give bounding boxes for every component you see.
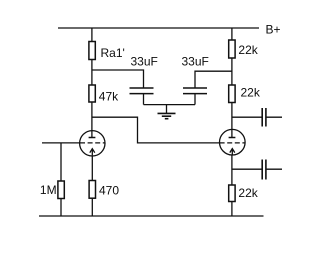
svg-text:33uF: 33uF [131,54,158,68]
svg-text:22k: 22k [238,43,258,57]
wire: cathode node to C4 [232,168,262,170]
wire: Ra1' bottom to 47k top (node A at y=70) [91,60,93,86]
V1 grid (dashed) [80,142,105,144]
capacitor C4 (bottom coupling) [262,160,266,180]
resistor R 22k #1 [229,40,235,58]
resistor R 22k #3 [229,185,235,202]
wire: 22k#1 bottom to 22k#2 top (node at y=71) [231,58,233,85]
V2 cathode arrow [230,148,235,155]
resistor Ra1' [89,42,95,60]
svg-text:B+: B+ [266,23,281,37]
wire: plate node to C3 [232,116,262,118]
wire: C1 bottom to C2 bottom [144,104,196,106]
svg-text:1M: 1M [40,183,57,197]
wire: input to V1 grid [42,142,80,144]
wire: V1 plate to V2 grid (direct coupling) [92,117,220,143]
wire: C2 top lead to node between 22k/22k [195,71,232,88]
capacitor C1 33uF [130,88,154,94]
wire: 22k#3 to ground rail [231,202,233,217]
wire: node A to C1 top [92,70,144,88]
svg-text:33uF: 33uF [182,54,209,68]
resistor R 22k #2 [229,85,235,103]
V1 cathode arrow [90,149,95,156]
wire: B+ supply rail [58,27,259,29]
V2 anode [229,130,236,138]
triode V1 envelope [80,131,105,156]
triode V2 envelope [220,129,246,155]
wire: C3 output [266,116,282,118]
wire: V1 cathode to 470 [91,155,93,180]
capacitor C3 (top coupling) [262,108,266,127]
wire: C1 bottom lead [143,94,145,105]
resistor 470 [89,181,95,199]
svg-text:Ra1': Ra1' [101,46,125,60]
wire: C4 output [266,168,282,170]
wire: rail to Ra1' top [91,28,93,42]
wire: grid node down to 1M [60,143,62,181]
svg-text:47k: 47k [99,89,119,103]
V2 grid (dashed) [220,142,245,144]
svg-text:22k: 22k [238,186,258,200]
wire: V2 cathode to 22k#3 (branch at y=169) [231,155,233,185]
resistor 47k [89,85,95,102]
wire: 1M bottom to ground rail [60,199,62,217]
wire: 470 bottom to ground rail [91,198,93,216]
resistor 1M [58,181,64,199]
V1 anode [89,102,96,138]
ground [158,105,176,119]
wire: rail to 22k#1 top [231,28,233,40]
wire: ground rail [39,215,264,217]
wire: C2 bottom lead [194,94,196,105]
capacitor C2 33uF [183,88,207,94]
svg-text:470: 470 [99,183,119,197]
wire: 22k#2 bottom to V2 plate (branch at y=117) [231,103,233,130]
svg-text:22k: 22k [241,86,261,100]
